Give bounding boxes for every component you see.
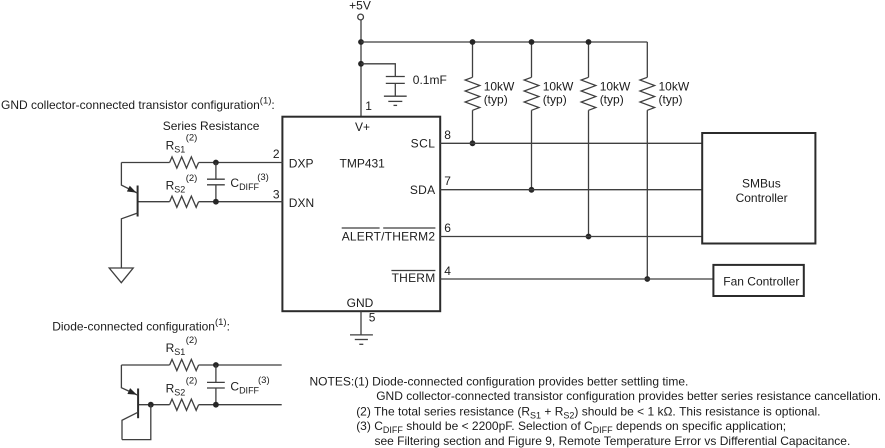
svg-text:ALERT/THERM2: ALERT/THERM2 xyxy=(342,230,436,244)
svg-text:SDA: SDA xyxy=(410,183,435,197)
wire emitter to RS1 xyxy=(121,162,169,164)
junction R3 bottom xyxy=(586,234,592,240)
junction bypass cap tap xyxy=(358,61,364,67)
ground (IC GND pin) xyxy=(350,335,373,344)
svg-text:1: 1 xyxy=(365,99,372,113)
ground (bypass capacitor) xyxy=(384,96,407,105)
junction R2 bottom xyxy=(529,187,535,193)
svg-text:7: 7 xyxy=(444,174,451,188)
svg-text:DXP: DXP xyxy=(289,156,314,170)
junction R1 top xyxy=(470,39,476,45)
svg-text:(typ): (typ) xyxy=(600,93,624,107)
resistor RS2 xyxy=(170,196,199,207)
wire pull-up bus xyxy=(361,41,647,43)
wire base to RS2 (diode config) xyxy=(138,404,170,406)
ground (Q1 collector) xyxy=(109,268,133,283)
svg-text:10kW: 10kW xyxy=(600,80,631,94)
svg-text:(3) CDIFF should be < 2200pF.: (3) CDIFF should be < 2200pF. Selection … xyxy=(356,419,786,435)
svg-text:NOTES:(1) Diode-connected conf: NOTES:(1) Diode-connected configuration … xyxy=(310,375,689,389)
svg-text:(typ): (typ) xyxy=(543,93,567,107)
svg-text:+5V: +5V xyxy=(349,0,371,13)
junction CDIFF bottom (diode config) xyxy=(213,402,219,408)
svg-text:DXN: DXN xyxy=(289,196,314,210)
svg-text:RS1: RS1 xyxy=(166,341,186,357)
resistor pull-up R3 10kW xyxy=(581,42,596,237)
wire SCL net (pin 8 to SMBus controller) xyxy=(440,142,702,144)
wire GND pin 5 xyxy=(360,311,362,335)
junction base-collector tie (diode config) xyxy=(148,402,154,408)
resistor pull-up R4 10kW xyxy=(640,42,655,279)
svg-text:2: 2 xyxy=(273,147,280,161)
svg-text:SMBus: SMBus xyxy=(742,177,781,191)
wire THERM net (pin 4 to fan controller) xyxy=(440,278,713,280)
svg-text:Controller: Controller xyxy=(736,191,788,205)
label CDIFF (3) xyxy=(230,172,268,192)
wire collector-base short loop xyxy=(122,405,151,440)
wire RS1 stub DXP (diode config) xyxy=(199,364,282,366)
wire SDA net (pin 7 to SMBus controller) xyxy=(440,189,702,191)
svg-text:GND collector-connected transi: GND collector-connected transistor confi… xyxy=(1,96,275,113)
capacitor 0.1mF xyxy=(386,77,405,97)
svg-text:(typ): (typ) xyxy=(484,93,508,107)
wire emitter to RS1 (diode config) xyxy=(121,364,169,366)
transistor Q1 (remote PNP, collector to GND) xyxy=(121,163,137,269)
svg-text:V+: V+ xyxy=(355,120,370,134)
junction DXP / CDIFF top xyxy=(213,160,219,166)
svg-text:(2): (2) xyxy=(186,335,198,346)
svg-text:RS2: RS2 xyxy=(166,179,186,195)
svg-text:see Filtering section and Figu: see Filtering section and Figure 9, Remo… xyxy=(375,434,851,448)
junction R1 bottom xyxy=(470,140,476,146)
svg-text:5: 5 xyxy=(369,311,376,325)
resistor RS1 (diode config) xyxy=(170,359,199,370)
junction R4 bottom xyxy=(644,276,650,282)
wire RS2 stub DXN (diode config) xyxy=(199,404,282,406)
block Fan Controller xyxy=(713,265,803,296)
junction DXN / CDIFF bottom xyxy=(213,199,219,205)
wire RS2 to DXN pin 3 xyxy=(199,201,283,203)
power terminal +5V xyxy=(358,14,364,20)
pin THERM label with overline xyxy=(391,271,435,285)
svg-text:Diode-connected configuration(: Diode-connected configuration(1): xyxy=(52,317,230,334)
svg-text:0.1mF: 0.1mF xyxy=(413,73,447,87)
resistor pull-up R2 10kW xyxy=(524,42,539,190)
svg-text:8: 8 xyxy=(444,128,451,142)
resistor pull-up R1 10kW xyxy=(465,42,480,143)
label RS1 (2) (diode config) xyxy=(166,335,198,357)
svg-text:(3): (3) xyxy=(257,172,269,183)
label CDIFF (3) (diode config) xyxy=(230,375,269,395)
svg-text:(typ): (typ) xyxy=(659,93,683,107)
svg-text:4: 4 xyxy=(444,264,451,278)
svg-text:THERM: THERM xyxy=(392,271,436,285)
svg-text:(2) The total series resistanc: (2) The total series resistance (RS1 + R… xyxy=(356,405,820,421)
label RS1 (2) xyxy=(166,132,198,154)
junction +5V bus xyxy=(358,39,364,45)
svg-text:(3): (3) xyxy=(258,375,270,386)
svg-text:(2): (2) xyxy=(186,173,198,184)
transistor Q2 (remote PNP, diode-connected) xyxy=(121,365,138,440)
svg-text:10kW: 10kW xyxy=(543,80,574,94)
resistor RS2 (diode config) xyxy=(170,399,199,410)
svg-text:(2): (2) xyxy=(186,376,198,387)
svg-text:GND collector-connected transi: GND collector-connected transistor confi… xyxy=(376,389,881,403)
svg-text:CDIFF: CDIFF xyxy=(230,379,259,395)
svg-text:Fan Controller: Fan Controller xyxy=(723,275,799,289)
wire +5V to V+ pin xyxy=(360,20,362,118)
svg-text:GND: GND xyxy=(347,296,374,310)
op-amp/IC U1 TMP431 body xyxy=(282,117,440,312)
wire ALERT/THERM2 net (pin 6 to SMBus controller) xyxy=(440,236,702,238)
svg-text:Series Resistance: Series Resistance xyxy=(163,119,260,133)
wire RS1 to DXP pin 2 xyxy=(199,162,283,164)
svg-text:(2): (2) xyxy=(186,132,198,143)
svg-text:10kW: 10kW xyxy=(484,80,515,94)
resistor RS1 xyxy=(170,157,199,168)
junction R2 top xyxy=(529,39,535,45)
junction CDIFF top (diode config) xyxy=(213,362,219,368)
svg-text:RS2: RS2 xyxy=(166,382,186,398)
svg-text:3: 3 xyxy=(273,187,280,201)
svg-text:CDIFF: CDIFF xyxy=(230,176,259,192)
pin ALERT/THERM2 label with overlines xyxy=(342,228,436,244)
svg-text:RS1: RS1 xyxy=(166,139,186,155)
svg-text:10kW: 10kW xyxy=(659,80,690,94)
svg-text:6: 6 xyxy=(444,221,451,235)
capacitor CDIFF xyxy=(207,163,225,202)
capacitor CDIFF (diode config) xyxy=(207,365,225,405)
svg-text:TMP431: TMP431 xyxy=(340,156,386,170)
svg-text:SCL: SCL xyxy=(411,136,436,150)
label RS2 (2) (diode config) xyxy=(166,376,198,398)
wire base to RS2 xyxy=(138,201,170,203)
label RS2 (2) xyxy=(166,173,198,195)
wire to bypass capacitor xyxy=(361,64,395,77)
block SMBus Controller xyxy=(702,133,815,244)
junction R3 top xyxy=(586,39,592,45)
